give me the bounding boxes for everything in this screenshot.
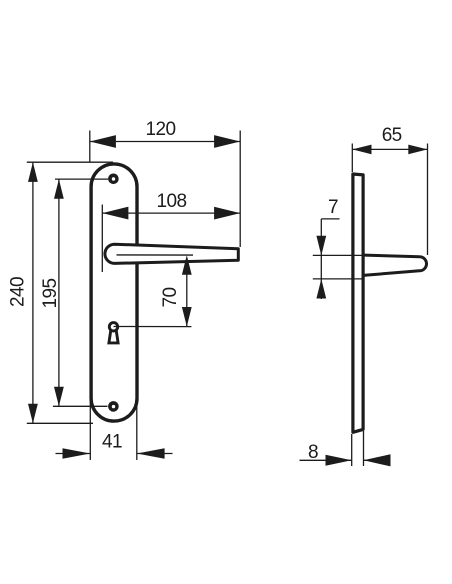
svg-text:240: 240 (8, 277, 29, 307)
svg-text:195: 195 (40, 279, 61, 309)
svg-text:8: 8 (308, 442, 318, 463)
svg-text:65: 65 (382, 125, 402, 146)
svg-text:108: 108 (157, 191, 187, 212)
svg-text:120: 120 (146, 119, 176, 140)
svg-text:7: 7 (328, 197, 338, 218)
svg-text:41: 41 (102, 432, 122, 453)
svg-text:70: 70 (160, 288, 181, 308)
